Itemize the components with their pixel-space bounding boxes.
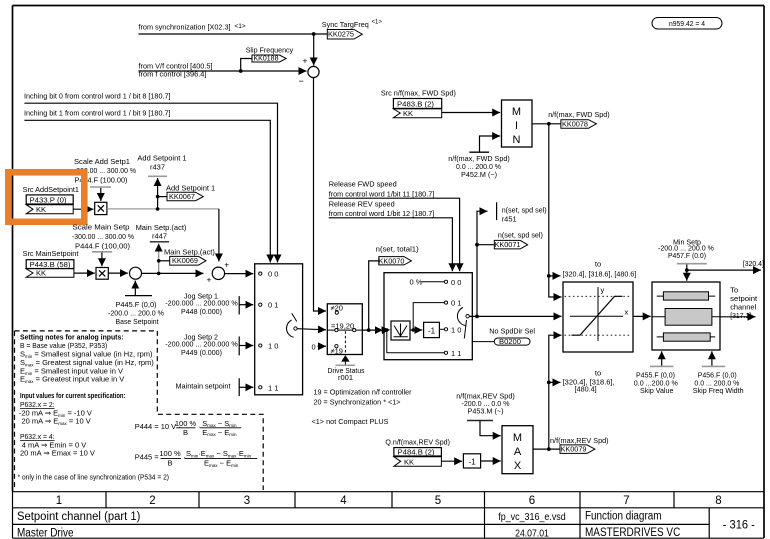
svg-text:B0200: B0200 [499, 337, 521, 346]
svg-text:-300.00 ... 300.00 %: -300.00 ... 300.00 % [72, 232, 134, 241]
release REV speed wire [329, 200, 453, 272]
svg-text:M: M [512, 106, 521, 118]
summer S1 (sync - slip) [299, 66, 320, 86]
setting notes text [18, 333, 170, 482]
svg-text:Emax − Emin: Emax − Emin [202, 428, 237, 437]
source box P483 Src n/f(max, FWD Spd) [381, 89, 456, 119]
svg-text:Skip Value: Skip Value [640, 386, 673, 395]
wire: limiter to skip block [633, 315, 651, 317]
svg-text:B: B [167, 459, 172, 468]
wire: P443 to X2 [74, 272, 95, 274]
source box P433 Src AddSetpoint1 [23, 185, 79, 214]
svg-text:x: x [625, 308, 629, 317]
svg-text:0: 0 [312, 342, 316, 351]
svg-text:7: 7 [623, 495, 629, 507]
release FWD speed wire [329, 180, 460, 272]
svg-text:Inching bit 1 from control wor: Inching bit 1 from control word 1 / bit … [24, 109, 171, 118]
drive status selector box [327, 303, 362, 355]
limiter block [563, 282, 633, 352]
parameter pill n959.42 [652, 18, 722, 30]
svg-text:P444.F (100,00): P444.F (100,00) [75, 241, 131, 250]
svg-text:Function diagram: Function diagram [585, 511, 662, 523]
connector KK0067 Add Setpoint 1 [158, 183, 216, 201]
summer S2 (base setpoint) [130, 267, 142, 279]
svg-text:I: I [515, 120, 518, 132]
parameter P452.M n/f(max, FWD Spd) [448, 136, 510, 179]
svg-text:1 1: 1 1 [451, 349, 461, 358]
absolute value block [391, 321, 410, 340]
wire: S1 output down to drive status input [314, 78, 327, 311]
svg-text:Maintain setpoint: Maintain setpoint [176, 382, 232, 391]
parameter P453.M n/f(max,REV Spd) [456, 391, 515, 435]
tap to [480.6] sheets [549, 259, 637, 278]
wire: sync down into summer [313, 34, 315, 66]
connector KK0078 n/f(max, FWD Spd) [532, 110, 610, 129]
svg-text:+: + [303, 56, 308, 66]
svg-text:Src AddSetpoint1: Src AddSetpoint1 [23, 185, 79, 194]
setting notes dashed box [15, 331, 264, 490]
svg-text:KK0070: KK0070 [379, 256, 405, 265]
constant 0 into drive status [312, 342, 327, 351]
svg-text:0 0: 0 0 [268, 270, 278, 279]
svg-text:Scale Main Setp: Scale Main Setp [73, 223, 130, 232]
orange highlight box [8, 172, 84, 222]
svg-text:[320.4], [318.6], [480.6]: [320.4], [318.6], [480.6] [563, 270, 637, 279]
svg-text:20 mA ⇒ Emax = 10 V: 20 mA ⇒ Emax = 10 V [20, 448, 95, 457]
connector KK0069 Main Setp.(act) [159, 248, 216, 266]
svg-text:Release FWD speed: Release FWD speed [329, 180, 397, 189]
svg-text:from synchronization [X02.3]: from synchronization [X02.3] [139, 23, 231, 32]
summer S3 (main + add) [212, 267, 224, 279]
svg-text:<1> not Compact PLUS: <1> not Compact PLUS [312, 417, 389, 426]
monitor r437 Add Setpoint 1 [137, 154, 186, 211]
svg-text:[480.4]: [480.4] [575, 385, 597, 394]
svg-text:-1: -1 [428, 326, 436, 335]
limiter lower input from REV limit [549, 335, 562, 382]
svg-text:KK0079: KK0079 [561, 445, 587, 454]
svg-text:19 = Optimization n/f controll: 19 = Optimization n/f controller [314, 388, 412, 397]
node: inching bit 1 wire [24, 109, 270, 263]
wire: drive status output to dir-select box [362, 329, 383, 331]
jog setp 1 labels [165, 292, 253, 317]
svg-text:Base Setpoint: Base Setpoint [116, 317, 160, 326]
svg-text:Scale Add Setp1: Scale Add Setp1 [74, 157, 130, 166]
output to setpoint channel [720, 285, 758, 320]
node: inching bit 0 wire [24, 92, 278, 263]
svg-text:A: A [514, 446, 522, 458]
svg-text:P483.B (2): P483.B (2) [397, 99, 435, 108]
svg-text:8: 8 [715, 495, 721, 507]
svg-text:KK: KK [404, 457, 414, 466]
tap to [480.4] sheets [547, 368, 615, 393]
svg-text:Setpoint channel (part 1): Setpoint channel (part 1) [17, 511, 141, 523]
svg-text:100 %: 100 % [159, 449, 181, 458]
svg-text:-1: -1 [468, 457, 476, 466]
connector KK0275 Sync TargFreq [322, 20, 383, 40]
mux1 switch [286, 313, 297, 337]
svg-text:6: 6 [529, 495, 535, 507]
svg-text:P433.P (0): P433.P (0) [30, 196, 68, 205]
svg-text:Skip Freq Width: Skip Freq Width [693, 386, 744, 395]
node: from synchronization wire [139, 23, 328, 36]
parameter P434 scale add setp1 [74, 157, 136, 201]
multiplier X1 scale add [95, 202, 107, 214]
tap to [320.4] top right [687, 259, 764, 270]
svg-text:0 %: 0 % [410, 277, 423, 286]
svg-text:r451: r451 [502, 215, 517, 224]
svg-text:≠19: ≠19 [331, 346, 343, 355]
svg-text:KK: KK [36, 269, 46, 278]
multiplier X2 scale main [96, 268, 108, 280]
svg-text:20 mA ⇒ Emax = 10 V: 20 mA ⇒ Emax = 10 V [22, 417, 91, 427]
svg-text:KK0078: KK0078 [562, 120, 588, 129]
svg-text:Master Drive: Master Drive [17, 527, 74, 539]
svg-text:0 1: 0 1 [451, 299, 461, 308]
svg-text:KK0071: KK0071 [495, 240, 521, 249]
svg-text:24.07.01: 24.07.01 [515, 527, 549, 539]
svg-text:* only in the case of line syn: * only in the case of line synchronizati… [18, 472, 170, 481]
svg-text:KK0067: KK0067 [169, 192, 195, 201]
svg-text:r447: r447 [152, 232, 167, 241]
parameter P445 base setpoint [108, 281, 164, 326]
svg-text:4: 4 [340, 495, 347, 507]
svg-text:P453.M (~): P453.M (~) [468, 406, 504, 415]
svg-text:Q.n/f(max,REV Spd): Q.n/f(max,REV Spd) [385, 438, 450, 447]
wire: FWD limit down to limiter upper input [549, 124, 562, 297]
svg-text:Smax − Smin: Smax − Smin [202, 419, 237, 428]
svg-text:0 1: 0 1 [268, 301, 278, 310]
dir-select box (abs / -1 selector) [384, 273, 472, 360]
wire: S3 to mux row 00 [225, 273, 254, 275]
svg-text:fp_vc_316_e.vsd: fp_vc_316_e.vsd [498, 511, 566, 523]
svg-text:P449 (0.000): P449 (0.000) [181, 348, 222, 357]
wire: P484 to -1 [441, 460, 462, 462]
wire: REV limit down to MAX output junction [548, 382, 550, 449]
MAX block [502, 426, 533, 474]
connector KK0070 n(set,total1) [369, 245, 420, 331]
monitor r447 Main Setp.(act) [136, 223, 187, 275]
connector B0200 No SpdDir Sel [472, 326, 535, 346]
svg-text:KK: KK [36, 205, 46, 214]
mux1 setpoint selector box [255, 264, 303, 395]
source box P443 Src MainSetpoint [23, 249, 80, 278]
wire: add setpoint down into summer S3 [218, 209, 220, 262]
svg-text:y: y [601, 286, 605, 295]
MIN block [502, 100, 533, 147]
connector KK0188 Slip Frequency [241, 46, 294, 71]
svg-text:- 316 -: - 316 - [723, 519, 755, 531]
svg-text:P457.F (0.0): P457.F (0.0) [668, 251, 706, 260]
wire: X2 to summer S2 [108, 272, 128, 274]
drive status r001 control input [328, 355, 365, 382]
parameter P456 skip freq width [693, 351, 744, 395]
svg-text:P448 (0.000): P448 (0.000) [181, 307, 222, 316]
svg-text:=19,20: =19,20 [331, 321, 354, 330]
svg-text:[320.4]: [320.4] [743, 259, 764, 268]
svg-text:B: B [183, 428, 188, 437]
svg-text:·: · [198, 422, 201, 431]
wire -1 to row 10 [439, 328, 444, 330]
svg-text:1 0: 1 0 [451, 325, 461, 334]
svg-text:0 0: 0 0 [451, 278, 461, 287]
svg-text:Src MainSetpoint: Src MainSetpoint [23, 249, 80, 258]
svg-text:Input values for current speci: Input values for current specification: [20, 391, 126, 400]
wire: -1 to MAX [481, 460, 501, 462]
gain -1 block [424, 322, 440, 337]
gain -1 block (REV) [463, 454, 480, 468]
svg-text:P452.M (~): P452.M (~) [461, 170, 497, 179]
svg-text:Add Setpoint 1: Add Setpoint 1 [137, 154, 186, 163]
svg-text:<1>: <1> [372, 20, 383, 26]
skip frequency block [652, 282, 720, 350]
connector KK0071 n(set, spd sel) [475, 230, 543, 249]
svg-text:KK0188: KK0188 [254, 54, 279, 63]
svg-text:+: + [224, 260, 229, 270]
node: from V/f control wire [139, 62, 307, 79]
svg-text:Inching bit 0 from control wor: Inching bit 0 from control word 1 / bit … [24, 92, 171, 101]
svg-text:1 1: 1 1 [268, 383, 278, 392]
wire: X1 output (gray) [107, 208, 219, 210]
svg-text:Add Setpoint 1: Add Setpoint 1 [166, 183, 215, 192]
wire: P433 to X1 [73, 208, 93, 210]
svg-text:Emax = Greatest input value in: Emax = Greatest input value in V [20, 375, 124, 385]
monitor r451 n(set, spd sel) [477, 202, 547, 316]
svg-text:−: − [299, 76, 304, 86]
wire: dir-select output to limiter [469, 315, 561, 317]
svg-text:n/f(max, FWD Spd): n/f(max, FWD Spd) [548, 110, 610, 119]
svg-text:100 %: 100 % [175, 419, 197, 428]
svg-text:2: 2 [149, 495, 155, 507]
svg-text:P444 = 10 V ·: P444 = 10 V · [135, 422, 181, 431]
source box P484 Q.n/f(max,REV Spd) [385, 438, 450, 467]
wire: S2 to S3 [142, 272, 204, 274]
svg-text:to: to [595, 259, 601, 268]
formula P445 [135, 449, 258, 468]
parameter P444 scale main setp [72, 223, 134, 267]
note 19/20 text [312, 388, 412, 426]
parameter P455 skip value [634, 351, 678, 395]
svg-text:5: 5 [435, 495, 441, 507]
svg-text:3: 3 [244, 495, 250, 507]
dir-select switch [457, 308, 469, 339]
svg-text:N: N [513, 134, 521, 146]
svg-text:M: M [513, 432, 522, 444]
svg-text:Release REV speed: Release REV speed [329, 200, 395, 209]
wire: mux1 output to drive status [297, 329, 326, 330]
title block table [13, 492, 765, 539]
svg-text:[317.1]: [317.1] [730, 311, 751, 320]
svg-text:KK0069: KK0069 [172, 256, 198, 265]
svg-text:from control word 1/bit 11 [18: from control word 1/bit 11 [180.7] [329, 189, 435, 198]
svg-text:n(set, total1): n(set, total1) [376, 245, 420, 254]
parameter P457 Min Setp [658, 237, 714, 280]
svg-text:+: + [207, 275, 212, 285]
svg-text:Emax − Emin: Emax − Emin [204, 459, 239, 468]
maintain setpoint label [176, 378, 254, 396]
svg-text:n959.42 = 4: n959.42 = 4 [669, 19, 705, 28]
svg-text:X: X [514, 460, 522, 472]
connector KK0079 n/f(max,REV Spd) [533, 436, 609, 454]
wire into abs block [384, 329, 390, 331]
svg-text:No SpdDir Sel: No SpdDir Sel [489, 326, 535, 335]
jog setp 2 labels [165, 333, 253, 358]
svg-text:Sync TargFreq: Sync TargFreq [322, 20, 369, 29]
wire: P483 to MIN [442, 112, 501, 114]
svg-text:<1>: <1> [235, 23, 246, 30]
svg-text:Main Setp.(act): Main Setp.(act) [164, 248, 215, 257]
wire abs out / branch up to row 01 [410, 329, 422, 331]
svg-text:P484.B (2): P484.B (2) [398, 448, 436, 457]
svg-text:n(set, spd sel): n(set, spd sel) [498, 230, 543, 239]
svg-text:1: 1 [56, 495, 62, 507]
svg-text:1 0: 1 0 [268, 342, 278, 351]
svg-text:Src n/f(max, FWD Spd): Src n/f(max, FWD Spd) [381, 89, 456, 98]
svg-text:P445 =: P445 = [135, 453, 160, 462]
svg-text:n(set, spd sel): n(set, spd sel) [502, 206, 547, 215]
svg-text:KK: KK [403, 109, 413, 118]
svg-text:MASTERDRIVES VC: MASTERDRIVES VC [585, 527, 680, 539]
formula P444 [135, 419, 242, 437]
svg-text:r437: r437 [150, 163, 165, 172]
svg-text:Smin·Emax − Smax·Emin: Smin·Emax − Smax·Emin [186, 449, 252, 458]
svg-text:r001: r001 [338, 373, 353, 382]
svg-text:20 = Synchronization * <1>: 20 = Synchronization * <1> [314, 398, 402, 407]
branch to row 11 [387, 330, 444, 353]
svg-text:KK0275: KK0275 [328, 30, 354, 39]
svg-text:from control word 1/bit 12 [18: from control word 1/bit 12 [180.7] [329, 209, 435, 218]
svg-text:to: to [595, 368, 601, 377]
